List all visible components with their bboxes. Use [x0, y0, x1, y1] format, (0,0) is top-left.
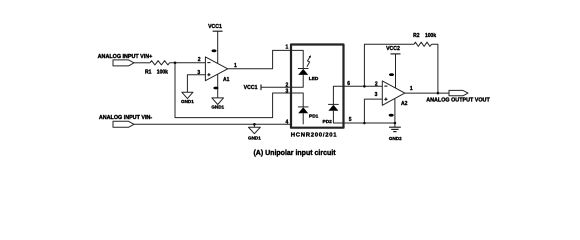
wire A1 pin 4 to GND1	[217, 75, 219, 98]
label R1 100k	[145, 70, 168, 76]
photodiode PD2 branch wire (pin6 in)	[333, 86, 343, 104]
op-amp A1	[205, 57, 229, 83]
svg-text:R1: R1	[145, 70, 152, 76]
wire A1 output to optocoupler pin 1	[228, 50, 291, 68]
svg-text:ANALOG INPUT VIN-: ANALOG INPUT VIN-	[99, 115, 153, 121]
svg-text:1: 1	[410, 86, 413, 92]
svg-text:R2: R2	[413, 33, 420, 39]
wire R1 to A1 pin 2	[170, 62, 206, 64]
photodiode PD2	[328, 104, 343, 123]
svg-text:PD2: PD2	[323, 119, 333, 125]
svg-text:ANALOG OUTPUT VOUT: ANALOG OUTPUT VOUT	[426, 98, 490, 104]
wire R2 to output node	[432, 44, 438, 93]
svg-text:GND1: GND1	[211, 105, 224, 110]
op-amp A2	[382, 81, 407, 107]
pin 4 marker (A2)	[389, 114, 394, 117]
resistor R2	[414, 42, 432, 46]
power VCC2 (A2 pin 8)	[386, 46, 400, 88]
node A junction (R1 / A1 / feedback)	[174, 62, 177, 65]
svg-text:HCNR200/201: HCNR200/201	[291, 133, 338, 139]
svg-text:100k: 100k	[425, 33, 436, 39]
wire A1 pin 3 to GND1	[187, 75, 205, 93]
svg-text:5: 5	[349, 117, 352, 123]
ground GND1 (A1 + input)	[181, 92, 194, 104]
input terminal VIN-	[113, 121, 134, 127]
svg-text:GND2: GND2	[389, 136, 402, 141]
svg-text:LED: LED	[309, 76, 319, 82]
svg-text:2: 2	[198, 57, 201, 63]
optocoupler U1 HCNR200/201 body	[291, 45, 344, 128]
svg-text:3: 3	[375, 92, 378, 98]
junction (R2 / output)	[437, 92, 440, 95]
svg-text:100k: 100k	[157, 70, 168, 76]
power VCC1 (opto pin 2)	[244, 85, 291, 92]
svg-text:ANALOG INPUT VIN+: ANALOG INPUT VIN+	[98, 54, 153, 60]
junction (pin3 riser on pin5 wire)	[363, 122, 366, 125]
svg-text:1: 1	[286, 44, 289, 50]
svg-text:GND1: GND1	[248, 136, 261, 141]
wire opto pin 6 to A2 pin 2	[344, 85, 383, 87]
svg-text:2: 2	[375, 82, 378, 88]
photodiode PD1 branch wire (pin3 in)	[291, 93, 303, 107]
svg-text:VCC2: VCC2	[386, 46, 400, 52]
wire VIN- to opto pin 4	[134, 123, 291, 125]
svg-text:−: −	[384, 84, 388, 90]
svg-text:A2: A2	[401, 101, 408, 107]
svg-text:3: 3	[286, 88, 289, 94]
svg-text:PD1: PD1	[309, 114, 319, 120]
wire opto pin 5 to GND2 node	[344, 122, 395, 124]
wire VIN+ to R1	[134, 62, 150, 64]
input terminal VIN+	[113, 60, 134, 66]
LED emission arrow	[307, 55, 311, 67]
label R2 100k	[413, 33, 436, 39]
svg-text:GND1: GND1	[181, 99, 194, 104]
junction (feedback tap at A2 - input)	[363, 85, 366, 88]
svg-text:1: 1	[234, 63, 237, 69]
wire A2 pin 3 to pin-5 net	[364, 99, 382, 123]
LED branch wire (pin1 in)	[291, 50, 303, 68]
svg-text:−: −	[207, 60, 211, 66]
output terminal VOUT	[449, 90, 468, 95]
svg-text:VCC1: VCC1	[244, 85, 258, 91]
ground GND1 (input common)	[248, 124, 261, 140]
ground GND1 (A1 pin 4)	[211, 98, 224, 110]
svg-text:VCC1: VCC1	[208, 24, 222, 30]
junction (GND2 node)	[394, 122, 397, 125]
wire A2 pin 4 down	[394, 99, 396, 123]
wire feedback: node A to opto pin 3	[175, 63, 291, 118]
wire A2 output to VOUT	[405, 92, 449, 94]
power VCC1 (A1 pin 8)	[208, 24, 223, 64]
LED	[291, 69, 309, 88]
pin 4 marker (A1)	[213, 87, 218, 90]
wire feedback riser to R2	[364, 44, 414, 86]
ground GND2 (earth)	[389, 123, 402, 141]
resistor R1	[150, 61, 170, 65]
svg-text:A1: A1	[223, 77, 230, 83]
svg-text:4: 4	[286, 119, 289, 125]
junction (GND1 tap on VIN- wire)	[253, 123, 256, 126]
photodiode PD1	[298, 107, 309, 124]
svg-text:(A) Unipolar input circuit: (A) Unipolar input circuit	[253, 150, 336, 157]
